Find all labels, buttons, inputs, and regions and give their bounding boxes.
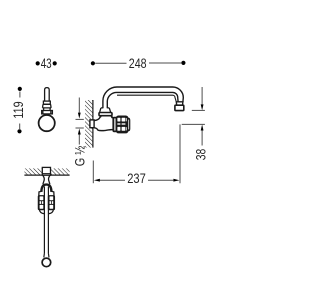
handle ring (42, 111, 53, 114)
wall (front view) hatched (85, 100, 93, 148)
dimension 43 (36, 56, 57, 71)
left knob (bottom view) (38, 196, 44, 210)
right knob (bottom view) (49, 196, 55, 210)
flange (bottom view) (42, 167, 50, 175)
handle neck (44, 108, 51, 111)
svg-text:119: 119 (11, 101, 26, 118)
dimension 119 (11, 87, 26, 134)
knob end caps (bottom view) (39, 210, 44, 214)
second inner line (117, 95, 176, 102)
spout tube mask (45, 186, 48, 258)
riser right + inner line (107, 92, 178, 108)
shoulders (bottom view) (39, 191, 42, 195)
svg-text:G ½: G ½ (72, 146, 87, 167)
svg-text:248: 248 (129, 56, 147, 71)
svg-text:43: 43 (41, 56, 52, 71)
neck (bottom view) (43, 175, 50, 184)
dimension 237 (93, 124, 180, 186)
knob knurl white cells (117, 118, 127, 131)
spout collar nut (176, 102, 183, 105)
svg-text:237: 237 (127, 171, 146, 186)
inlet flange (front view) (90, 120, 94, 128)
body (front view) (94, 116, 113, 130)
handle ball (39, 115, 55, 131)
bonnet (99, 108, 112, 118)
wall (bottom view) hatched (24, 168, 69, 175)
tube flare (bottom view) (44, 253, 49, 257)
dimension G 1/2 (72, 98, 87, 167)
handle collar band1 (43, 101, 50, 104)
handle lever (42, 88, 53, 114)
dimension 38 (182, 87, 209, 160)
valve arch (bottom view) (41, 185, 51, 192)
knob main knurled (117, 116, 128, 132)
knob (front view) left cap (113, 117, 117, 131)
aerator circle (bottom view) (42, 258, 51, 267)
knob right face (128, 118, 130, 131)
spout tube walls (bottom view) (43, 187, 45, 254)
handle ring side shading (42, 111, 43, 114)
svg-text:38: 38 (194, 149, 209, 161)
dimension 248 (91, 56, 186, 71)
riser + outer top line + elbow outer (103, 87, 183, 108)
spout (front view) (103, 87, 184, 111)
handle collar band2 (43, 104, 52, 108)
aerator (175, 105, 184, 110)
